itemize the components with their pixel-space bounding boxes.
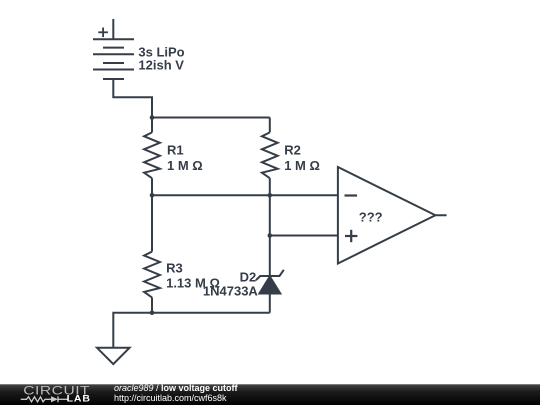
resistor R3 labels [166, 260, 220, 290]
wire mid rail to op-amp inverting input [152, 194, 338, 196]
svg-text:???: ??? [359, 210, 383, 225]
svg-text:1 M Ω: 1 M Ω [284, 158, 320, 173]
svg-text:http://circuitlab.com/cwf6s8k: http://circuitlab.com/cwf6s8k [114, 393, 227, 403]
CircuitLab logo wire squiggle with resistor and diode [21, 396, 68, 402]
svg-text:1.13 M Ω: 1.13 M Ω [166, 276, 220, 291]
svg-text:oracle989 / low voltage cutoff: oracle989 / low voltage cutoff [114, 383, 239, 393]
svg-text:R2: R2 [284, 143, 301, 158]
wire battery negative to node A [113, 79, 152, 118]
junction R2 bottom dot [268, 193, 273, 198]
battery V1 value label [138, 45, 184, 73]
junction plus node dot [268, 233, 273, 238]
op-amp U1 (???) [338, 167, 436, 264]
junction node A dot [150, 115, 155, 120]
svg-text:R3: R3 [166, 260, 183, 275]
wire bottom rail zener to ground corner [113, 313, 269, 348]
battery V1 (3s LiPo) [93, 19, 134, 79]
junction R1 bottom dot [150, 193, 155, 198]
junction R3 bottom dot [150, 310, 155, 315]
resistor R2 [262, 118, 278, 196]
op-amp U1 name label [359, 210, 383, 225]
svg-text:R1: R1 [167, 143, 184, 158]
footer bar [0, 384, 540, 405]
wire op-amp output stub [435, 214, 446, 216]
svg-text:D2: D2 [240, 269, 257, 284]
battery V1 plus polarity mark [98, 28, 108, 38]
zener diode D2 labels [203, 269, 259, 298]
ground symbol [97, 348, 130, 364]
wire plus node to op-amp non-inverting input [270, 235, 338, 237]
wire top rail node A to R2 [152, 117, 270, 119]
zener diode D2 [256, 236, 284, 313]
resistor R1 [144, 118, 160, 196]
svg-text:1 M Ω: 1 M Ω [167, 158, 203, 173]
resistor R2 labels [284, 143, 320, 173]
resistor R1 labels [167, 143, 203, 173]
resistor R3 [144, 195, 160, 312]
svg-text:12ish V: 12ish V [138, 58, 184, 73]
svg-text:LAB: LAB [67, 393, 91, 404]
wire R2 bottom down to plus node [269, 195, 271, 235]
